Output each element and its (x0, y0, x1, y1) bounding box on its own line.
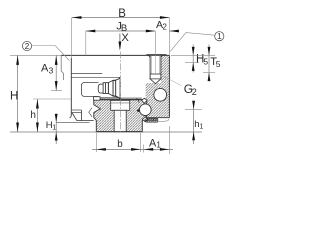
ball retainer dot (137, 109, 140, 112)
seal inner lip (89, 108, 92, 117)
seal strip bottom right (144, 118, 158, 122)
ball circle (140, 104, 152, 116)
hatch carriage upper-right (161, 56, 170, 83)
seal lip diagonal (72, 113, 77, 121)
contact arc mark (137, 99, 140, 103)
grease nipple bell (113, 78, 120, 100)
dim b / A1 baseline (92, 148, 173, 150)
rail outline (94, 100, 147, 132)
thread hole drill cone (150, 79, 161, 84)
raceway gap above ball (142, 98, 148, 103)
dim A1 (144, 148, 154, 151)
svg-text:1: 1 (200, 124, 204, 131)
seal step lines (72, 109, 82, 111)
hatch carriage lower-right (144, 83, 170, 121)
hatch rail left half (94, 100, 114, 132)
endplate groove lines (71, 73, 102, 75)
endplate recess (81, 82, 98, 96)
dim H1 (55, 114, 57, 145)
svg-text:2: 2 (25, 42, 30, 51)
top edge doubled near hole (146, 53, 166, 55)
svg-text:5: 5 (216, 59, 221, 69)
carriage right edge (168, 55, 170, 117)
svg-text:2: 2 (162, 22, 167, 31)
svg-text:b: b (117, 139, 123, 150)
dim H (17, 55, 19, 132)
svg-text:H: H (10, 91, 18, 103)
G2 lube duct circle (154, 88, 167, 101)
dim T5 (208, 45, 210, 81)
dim H5 (192, 45, 194, 73)
carriage right leg bottom (148, 117, 170, 119)
nipple boss lines (94, 97, 121, 99)
ext line right x169.4 (168, 18, 170, 56)
endplate face line (70, 58, 72, 115)
svg-text:B: B (118, 8, 126, 20)
dim JB (86, 30, 156, 32)
seal bottom line (77, 120, 94, 122)
dim h (36, 99, 38, 132)
nipple collar rings (103, 83, 108, 94)
dim h1 (193, 101, 195, 145)
ext line B left (71, 18, 73, 59)
dim B (72, 17, 169, 19)
callout 2 (22, 41, 31, 50)
carriage body top edge (61, 54, 169, 56)
svg-text:2: 2 (192, 87, 197, 97)
raceway gap below ball (142, 117, 148, 122)
left leg bottom edge (56, 121, 89, 123)
nipple button tip (98, 84, 103, 93)
seal foot hook (70, 115, 72, 118)
svg-text:h: h (30, 110, 36, 121)
saddle underside line (94, 97, 142, 99)
ext top left (10, 54, 61, 56)
svg-text:3: 3 (49, 66, 54, 76)
centerline (119, 52, 121, 134)
mounting surface line (10, 131, 202, 133)
rail bolt counterbore (111, 100, 130, 110)
callout 1 (215, 32, 224, 41)
svg-text:5: 5 (203, 56, 208, 66)
hatch rail right half (126, 100, 147, 132)
svg-text:X: X (121, 32, 129, 44)
nipple base bar (113, 80, 116, 96)
hole mouth chamfers (149, 55, 151, 57)
svg-text:1: 1 (217, 32, 222, 41)
nipple cone (108, 80, 113, 96)
thread hole G2 top (150, 56, 161, 79)
dim A3 (55, 55, 57, 90)
rail bottom edge (96, 131, 142, 133)
rail top line (95, 99, 146, 101)
carriage left outer edge (top) (61, 55, 63, 80)
rail bolt hole (114, 110, 126, 131)
svg-text:1: 1 (156, 141, 161, 150)
dim b (96, 148, 106, 151)
svg-text:1: 1 (52, 124, 56, 131)
